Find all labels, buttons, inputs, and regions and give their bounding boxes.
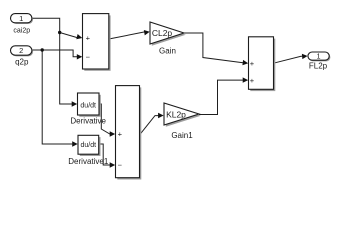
svg-text:CL2p: CL2p — [152, 28, 173, 38]
svg-text:Derivative1: Derivative1 — [68, 157, 109, 166]
svg-text:−: − — [118, 161, 123, 170]
svg-text:−: − — [86, 52, 91, 61]
svg-text:KL2p: KL2p — [166, 110, 186, 120]
svg-text:+: + — [86, 34, 91, 43]
svg-text:1: 1 — [317, 54, 321, 61]
svg-text:+: + — [118, 130, 123, 139]
svg-text:+: + — [250, 76, 255, 85]
svg-text:cai2p: cai2p — [13, 27, 30, 34]
svg-text:Derivative: Derivative — [70, 117, 106, 126]
svg-text:+: + — [250, 59, 255, 68]
svg-text:FL2p: FL2p — [309, 62, 328, 71]
svg-text:2: 2 — [19, 46, 23, 55]
svg-text:Gain: Gain — [159, 47, 176, 56]
svg-text:Gain1: Gain1 — [171, 131, 193, 140]
svg-text:du/dt: du/dt — [81, 142, 97, 149]
svg-text:q2p: q2p — [15, 58, 29, 67]
svg-text:du/dt: du/dt — [80, 103, 96, 110]
svg-text:1: 1 — [19, 14, 23, 23]
